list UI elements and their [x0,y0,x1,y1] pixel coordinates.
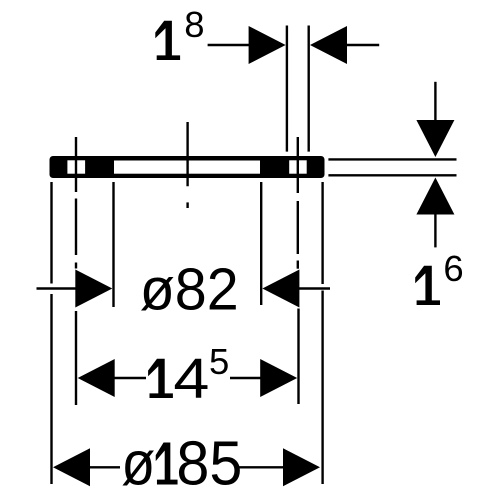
dim 14.5 arrow right [260,359,297,397]
centerline left hole [75,137,77,405]
centerline right hole [297,137,300,404]
dim 1.8 label [155,4,204,60]
dim d185 label [121,430,242,499]
dim 1.6 lower leader [434,213,436,248]
dim d185 arrow right [283,448,320,486]
dim 1.8 arrow right [310,26,347,64]
left bolt hole [67,160,85,173]
svg-text:8: 8 [184,4,204,45]
svg-text:85: 85 [176,430,242,499]
dim d82 label [140,257,239,323]
dim 14.5 dimension line left [114,377,146,379]
dim d185 leader right [239,466,283,468]
svg-text:5: 5 [209,341,229,382]
dim 1.8 extension line right [308,26,310,152]
dim d82 leader right [299,287,330,289]
dim d185 extension line left (with gap at crossing) [50,182,52,484]
dim 1.6 arrow down [416,120,454,157]
dim 1.6 extension line bottom [328,174,456,176]
svg-text:4: 4 [173,347,209,411]
dim d82 leader left [37,287,77,289]
dim 1.6 upper leader [434,82,436,122]
dim 1.6 label [415,248,464,305]
svg-text:ø: ø [121,430,155,499]
dim 14.5 arrow left [78,359,115,397]
dim d185 leader left [90,466,121,468]
dim d82 arrow right [262,270,299,308]
dim 1.6 extension line top [328,158,456,160]
inner opening (middle white) [114,161,260,174]
gasket body cross-section bar [50,156,325,178]
dim d82 extension line left [112,182,114,307]
dim 14.5 dimension line right [230,377,261,379]
dim d185 extension line right (with gap at crossing) [321,182,323,484]
dim 1.8 leader left [208,44,250,46]
right bolt hole [289,160,307,173]
dim 1.8 leader right [345,44,379,46]
dim 1.6 arrow up [416,178,454,215]
svg-text:6: 6 [443,248,463,289]
dim 14.5 label [148,341,229,411]
dim d185 arrow left [53,448,90,486]
centerline middle [186,122,188,208]
dim d82 arrow left [75,270,112,308]
dim 1.8 extension line left [286,26,288,152]
svg-text:ø82: ø82 [140,257,239,323]
dim 1.8 arrow left [249,26,286,64]
dim d82 extension line right [260,182,262,305]
